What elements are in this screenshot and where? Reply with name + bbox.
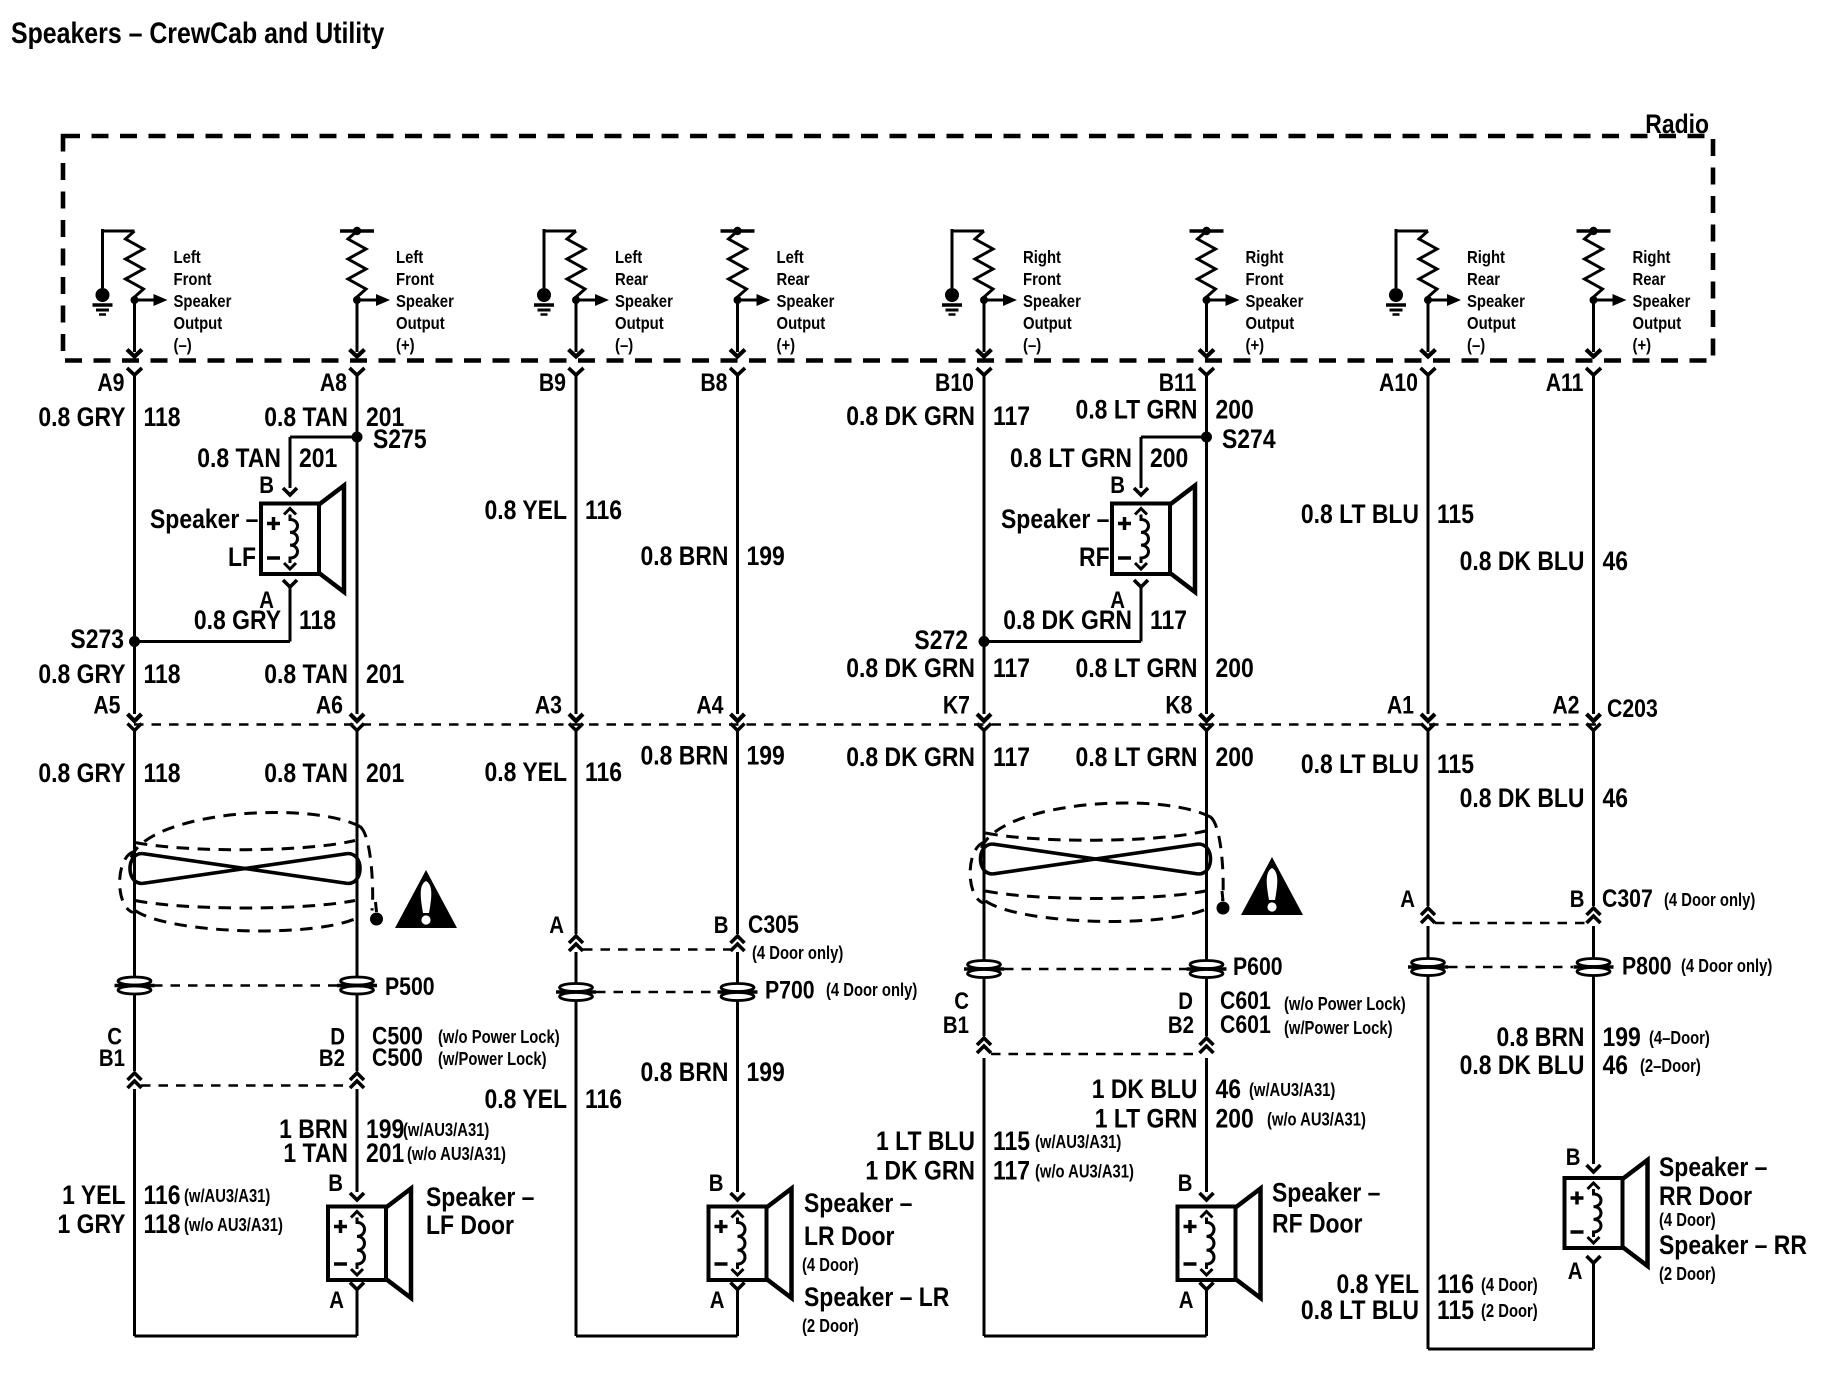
wire (column A9) bbox=[133, 1089, 136, 1336]
svg-text:(4 Door): (4 Door) bbox=[802, 1254, 859, 1275]
wire (bottom return, RR door) bbox=[1428, 1348, 1594, 1351]
svg-text:Speaker –: Speaker – bbox=[150, 504, 258, 534]
wire label 0.8 DK BLU 46 bbox=[1460, 546, 1629, 576]
svg-text:A2: A2 bbox=[1552, 691, 1579, 719]
svg-text:Left: Left bbox=[615, 248, 643, 267]
svg-text:115: 115 bbox=[1437, 1295, 1474, 1325]
svg-text:0.8 BRN: 0.8 BRN bbox=[641, 741, 729, 771]
wire label 0.8 YEL 116 bbox=[485, 757, 623, 787]
grommet P600 dashed link + label bbox=[1004, 968, 1187, 971]
svg-text:118: 118 bbox=[144, 402, 181, 432]
svg-text:(4 Door): (4 Door) bbox=[1659, 1209, 1716, 1230]
svg-text:Output: Output bbox=[396, 314, 445, 333]
svg-text:0.8 DK GRN: 0.8 DK GRN bbox=[1003, 605, 1132, 635]
svg-text:0.8 DK GRN: 0.8 DK GRN bbox=[846, 401, 975, 431]
svg-text:117: 117 bbox=[993, 653, 1030, 683]
svg-text:201: 201 bbox=[299, 443, 337, 473]
svg-text:A9: A9 bbox=[97, 368, 124, 396]
wire label 1 GRY 118 bbox=[57, 1209, 282, 1239]
svg-text:B: B bbox=[1566, 1143, 1581, 1170]
svg-text:C601: C601 bbox=[1220, 1010, 1271, 1038]
svg-text:B: B bbox=[1570, 885, 1585, 912]
radio resistor, Left Rear Speaker Output (-) bbox=[534, 229, 673, 375]
wire (bottom return, RF door) bbox=[984, 1335, 1207, 1338]
wire label 1 LT GRN 200 bbox=[1095, 1104, 1366, 1134]
svg-text:Output: Output bbox=[777, 314, 826, 333]
svg-text:Output: Output bbox=[1467, 314, 1516, 333]
speaker LR Door bbox=[709, 1189, 792, 1299]
svg-text:A8: A8 bbox=[320, 368, 347, 396]
svg-text:(4 Door only): (4 Door only) bbox=[1681, 955, 1772, 976]
svg-text:Front: Front bbox=[174, 270, 213, 289]
wire (LF speaker A to splice S273) bbox=[289, 587, 292, 642]
svg-text:LF Door: LF Door bbox=[426, 1210, 514, 1240]
RF speaker pin A arrow bbox=[1134, 580, 1148, 587]
wire label 0.8 TAN 201 bbox=[264, 402, 404, 432]
svg-text:Speaker –: Speaker – bbox=[804, 1188, 912, 1218]
svg-text:B: B bbox=[328, 1169, 343, 1196]
svg-text:B: B bbox=[709, 1169, 724, 1196]
svg-text:Speaker: Speaker bbox=[1467, 292, 1525, 311]
svg-text:A10: A10 bbox=[1379, 368, 1418, 396]
svg-text:Speaker –: Speaker – bbox=[1659, 1152, 1767, 1182]
svg-text:115: 115 bbox=[1437, 749, 1474, 779]
svg-text:B: B bbox=[1110, 471, 1125, 498]
svg-text:B11: B11 bbox=[1159, 368, 1197, 396]
connector arrow C307 pin A bbox=[1421, 908, 1435, 923]
svg-text:LF: LF bbox=[228, 542, 256, 572]
svg-text:0.8 YEL: 0.8 YEL bbox=[485, 1084, 567, 1114]
splice S273 bbox=[129, 636, 140, 647]
svg-text:S272: S272 bbox=[914, 625, 968, 655]
wire (column B8) bbox=[736, 952, 739, 1192]
wire label 0.8 YEL 116 bbox=[1337, 1269, 1538, 1299]
connector arrow C500 pin C/B1 bbox=[128, 1073, 142, 1088]
svg-text:A5: A5 bbox=[93, 691, 120, 719]
wire (column A9) bbox=[133, 375, 136, 714]
twisted-pair marker right (DK GRN/LT GRN) bbox=[970, 803, 1229, 921]
connector C203 pin arrow A10 bbox=[1421, 714, 1435, 731]
svg-text:B: B bbox=[714, 911, 729, 938]
speaker LF Door pin A arrow bbox=[350, 1283, 364, 1290]
svg-text:(w/Power Lock): (w/Power Lock) bbox=[1284, 1017, 1393, 1038]
radio resistor, Right Front Speaker Output (+) bbox=[1190, 227, 1304, 375]
connector arrow C601 pin C/B1 bbox=[977, 1038, 991, 1053]
svg-text:Output: Output bbox=[1023, 314, 1072, 333]
svg-text:P600: P600 bbox=[1233, 952, 1283, 980]
connector C203 pin arrow A8 bbox=[350, 714, 364, 731]
svg-text:B9: B9 bbox=[539, 368, 566, 396]
svg-text:117: 117 bbox=[993, 742, 1030, 772]
wire label 1 BRN 199 bbox=[279, 1114, 489, 1144]
wire (LF Door speaker pin A) bbox=[356, 1290, 359, 1337]
svg-text:RR Door: RR Door bbox=[1659, 1181, 1752, 1211]
svg-text:Output: Output bbox=[1246, 314, 1295, 333]
wire (bottom return, LF door) bbox=[135, 1335, 358, 1338]
svg-text:P500: P500 bbox=[385, 972, 435, 1000]
speaker LF bbox=[261, 486, 344, 593]
speaker RF Door pin A arrow bbox=[1200, 1283, 1214, 1290]
splice S272 bbox=[979, 636, 990, 647]
wire (column B8) bbox=[736, 375, 739, 714]
svg-text:117: 117 bbox=[1150, 605, 1187, 635]
svg-text:0.8 TAN: 0.8 TAN bbox=[264, 402, 348, 432]
svg-text:0.8 GRY: 0.8 GRY bbox=[38, 758, 125, 788]
wire label 1 TAN 201 bbox=[283, 1138, 506, 1168]
speaker RR Door pin A arrow bbox=[1587, 1256, 1601, 1263]
svg-text:0.8 TAN: 0.8 TAN bbox=[197, 443, 281, 473]
svg-text:Right: Right bbox=[1023, 248, 1062, 267]
speaker RF Door pin B arrow bbox=[1200, 1193, 1214, 1200]
svg-text:199: 199 bbox=[1603, 1022, 1641, 1052]
wire (LR Door speaker pin A) bbox=[736, 1290, 739, 1337]
connector C203 pin arrow B11 bbox=[1200, 714, 1214, 731]
svg-text:1 LT BLU: 1 LT BLU bbox=[876, 1126, 975, 1156]
grommet P700 right on wire bbox=[718, 984, 758, 1001]
svg-text:S273: S273 bbox=[70, 624, 124, 654]
svg-text:(w/o AU3/A31): (w/o AU3/A31) bbox=[184, 1214, 283, 1235]
svg-text:1 GRY: 1 GRY bbox=[57, 1209, 125, 1239]
wire (column A8) bbox=[356, 375, 359, 714]
svg-text:200: 200 bbox=[1216, 1104, 1254, 1134]
wire label 0.8 DK BLU 46 bbox=[1460, 783, 1629, 813]
svg-text:B1: B1 bbox=[99, 1044, 125, 1071]
svg-text:46: 46 bbox=[1603, 546, 1629, 576]
svg-text:A6: A6 bbox=[316, 691, 343, 719]
svg-text:0.8 LT GRN: 0.8 LT GRN bbox=[1076, 742, 1198, 772]
wire (column A10) bbox=[1427, 731, 1430, 906]
svg-text:0.8 LT BLU: 0.8 LT BLU bbox=[1301, 749, 1419, 779]
svg-text:A: A bbox=[1400, 885, 1415, 912]
connector C203 pin arrow B9 bbox=[569, 714, 583, 731]
svg-text:0.8 BRN: 0.8 BRN bbox=[641, 541, 729, 571]
wire (column B10) bbox=[983, 731, 986, 1036]
svg-text:(w/Power Lock): (w/Power Lock) bbox=[438, 1048, 547, 1069]
svg-text:0.8 DK BLU: 0.8 DK BLU bbox=[1460, 1050, 1585, 1080]
svg-text:Speaker: Speaker bbox=[396, 292, 454, 311]
grommet P800 right on wire bbox=[1574, 959, 1614, 976]
svg-text:199: 199 bbox=[747, 1057, 785, 1087]
svg-text:Speaker: Speaker bbox=[777, 292, 835, 311]
connector C203 pin arrow B10 bbox=[977, 714, 991, 731]
speaker LR Door pin B arrow bbox=[731, 1193, 745, 1200]
svg-text:Front: Front bbox=[1246, 270, 1285, 289]
svg-text:(w/AU3/A31): (w/AU3/A31) bbox=[184, 1185, 270, 1206]
svg-text:C203: C203 bbox=[1607, 694, 1658, 722]
wire label 0.8 GRY 118 bbox=[38, 659, 180, 689]
svg-text:1 LT GRN: 1 LT GRN bbox=[1095, 1104, 1198, 1134]
wire label 1 YEL 116 bbox=[62, 1180, 270, 1210]
svg-text:Speaker: Speaker bbox=[174, 292, 232, 311]
wire (RF Door speaker pin A) bbox=[1205, 1290, 1208, 1337]
svg-text:Left: Left bbox=[174, 248, 202, 267]
speaker LF Door bbox=[328, 1189, 411, 1299]
speaker RF Door bbox=[1178, 1189, 1261, 1299]
radio resistor, Left Front Speaker Output (-) bbox=[93, 229, 232, 375]
svg-text:0.8 GRY: 0.8 GRY bbox=[38, 402, 125, 432]
svg-text:118: 118 bbox=[299, 605, 336, 635]
svg-text:Speaker: Speaker bbox=[615, 292, 673, 311]
grommet P600 right on wire bbox=[1187, 961, 1227, 978]
wire (column B10) bbox=[983, 375, 986, 714]
svg-text:0.8 TAN: 0.8 TAN bbox=[264, 758, 348, 788]
svg-text:46: 46 bbox=[1216, 1074, 1242, 1104]
svg-text:A1: A1 bbox=[1387, 691, 1414, 719]
Radio dashed box bbox=[63, 136, 1713, 361]
wire (RF speaker A to splice S272) bbox=[1140, 587, 1143, 642]
svg-text:(–): (–) bbox=[1023, 336, 1041, 355]
svg-text:A4: A4 bbox=[696, 691, 723, 719]
wire label 0.8 BRN 199 bbox=[1497, 1022, 1710, 1052]
svg-text:A3: A3 bbox=[535, 691, 562, 719]
wire (column A10) bbox=[1427, 926, 1430, 1349]
wire label 0.8 TAN 201 bbox=[197, 443, 337, 473]
svg-text:A: A bbox=[549, 911, 564, 938]
radio resistor, Right Rear Speaker Output (-) bbox=[1386, 229, 1525, 375]
svg-text:Right: Right bbox=[1246, 248, 1285, 267]
wire (column A8) bbox=[356, 731, 359, 1071]
svg-text:116: 116 bbox=[585, 757, 622, 787]
LF speaker pin B arrow bbox=[283, 488, 297, 495]
svg-text:P700: P700 bbox=[765, 976, 815, 1004]
grommet P700 dashed link + label bbox=[596, 991, 718, 994]
speaker LF Door pin B arrow bbox=[350, 1193, 364, 1200]
svg-text:0.8 TAN: 0.8 TAN bbox=[264, 659, 348, 689]
splice S274 bbox=[1201, 432, 1212, 443]
svg-text:200: 200 bbox=[1216, 742, 1254, 772]
wire (column A11) bbox=[1592, 731, 1595, 906]
svg-text:Rear: Rear bbox=[777, 270, 811, 289]
svg-text:116: 116 bbox=[585, 1084, 622, 1114]
radio resistor, Right Front Speaker Output (-) bbox=[942, 229, 1081, 375]
speaker LR Door pin A arrow bbox=[731, 1283, 745, 1290]
wire (column B11) bbox=[1205, 375, 1208, 714]
svg-text:(2–Door): (2–Door) bbox=[1640, 1055, 1701, 1076]
svg-text:(–): (–) bbox=[1467, 336, 1485, 355]
wire label 0.8 DK GRN 117 bbox=[846, 742, 1030, 772]
wire label 0.8 BRN 199 bbox=[641, 541, 785, 571]
svg-text:200: 200 bbox=[1150, 443, 1188, 473]
svg-text:201: 201 bbox=[366, 659, 404, 689]
RF speaker pin B arrow bbox=[1134, 488, 1148, 495]
svg-text:(2 Door): (2 Door) bbox=[802, 1315, 859, 1336]
svg-text:(4 Door only): (4 Door only) bbox=[826, 979, 917, 1000]
radio resistor, Left Front Speaker Output (+) bbox=[340, 227, 454, 375]
svg-text:A: A bbox=[329, 1286, 344, 1313]
svg-text:(w/o Power Lock): (w/o Power Lock) bbox=[1284, 993, 1406, 1014]
grommet P700 left on wire bbox=[556, 984, 596, 1001]
svg-text:A: A bbox=[1568, 1257, 1583, 1284]
svg-text:(4–Door): (4–Door) bbox=[1649, 1027, 1710, 1048]
svg-text:117: 117 bbox=[993, 401, 1030, 431]
wire label 0.8 DK BLU 46 bbox=[1460, 1050, 1701, 1080]
svg-text:0.8 LT BLU: 0.8 LT BLU bbox=[1301, 1295, 1419, 1325]
svg-text:(w/AU3/A31): (w/AU3/A31) bbox=[1035, 1131, 1121, 1152]
grommet P800 left on wire bbox=[1408, 959, 1448, 976]
wire label 0.8 GRY 118 bbox=[38, 758, 180, 788]
wire label 0.8 YEL 116 bbox=[485, 1084, 623, 1114]
svg-text:A11: A11 bbox=[1546, 368, 1584, 396]
connector C307 dashed line bbox=[1435, 922, 1586, 925]
svg-text:S274: S274 bbox=[1222, 424, 1276, 454]
speaker RR Door pin B arrow bbox=[1587, 1165, 1601, 1172]
svg-text:(w/AU3/A31): (w/AU3/A31) bbox=[1249, 1079, 1335, 1100]
wire label 0.8 LT GRN 200 bbox=[1076, 653, 1254, 683]
svg-text:Right: Right bbox=[1467, 248, 1506, 267]
svg-text:(2 Door): (2 Door) bbox=[1481, 1300, 1538, 1321]
wire label 0.8 GRY 118 bbox=[194, 605, 336, 635]
svg-text:0.8 DK GRN: 0.8 DK GRN bbox=[846, 653, 975, 683]
svg-text:P800: P800 bbox=[1622, 952, 1672, 980]
wire (column B11) bbox=[1205, 731, 1208, 1036]
svg-text:(–): (–) bbox=[615, 336, 633, 355]
wire label 0.8 LT BLU 115 bbox=[1301, 1295, 1538, 1325]
svg-text:(+): (+) bbox=[1633, 336, 1652, 355]
svg-text:B: B bbox=[259, 471, 274, 498]
svg-text:1 DK GRN: 1 DK GRN bbox=[865, 1156, 975, 1186]
warning triangle left bbox=[395, 870, 457, 928]
svg-text:Speaker –: Speaker – bbox=[426, 1182, 534, 1212]
svg-text:201: 201 bbox=[366, 402, 404, 432]
svg-text:0.8 BRN: 0.8 BRN bbox=[641, 1057, 729, 1087]
wire (bottom return, LR door) bbox=[576, 1335, 738, 1338]
svg-text:(+): (+) bbox=[1246, 336, 1265, 355]
svg-text:1 TAN: 1 TAN bbox=[283, 1138, 348, 1168]
wire label 0.8 TAN 201 bbox=[264, 659, 404, 689]
LF speaker pin A arrow bbox=[283, 580, 297, 587]
svg-text:Output: Output bbox=[615, 314, 664, 333]
svg-text:1 YEL: 1 YEL bbox=[62, 1180, 125, 1210]
wire (S274 branch to RF speaker B) bbox=[1141, 436, 1207, 439]
svg-text:Speaker: Speaker bbox=[1246, 292, 1304, 311]
warning triangle right bbox=[1241, 857, 1303, 915]
svg-text:200: 200 bbox=[1216, 395, 1254, 425]
svg-text:K8: K8 bbox=[1165, 691, 1192, 719]
svg-text:RF: RF bbox=[1079, 542, 1110, 572]
svg-text:115: 115 bbox=[1437, 499, 1474, 529]
svg-text:RF Door: RF Door bbox=[1272, 1209, 1363, 1239]
svg-text:(4 Door only): (4 Door only) bbox=[752, 942, 843, 963]
svg-text:(4 Door only): (4 Door only) bbox=[1664, 889, 1755, 910]
svg-text:199: 199 bbox=[747, 541, 785, 571]
svg-text:Speaker: Speaker bbox=[1023, 292, 1081, 311]
wire label 0.8 DK GRN 117 bbox=[846, 653, 1030, 683]
connector C305 dashed line bbox=[583, 948, 731, 951]
svg-text:(2 Door): (2 Door) bbox=[1659, 1263, 1716, 1284]
connector arrow C601 pin D/B2 bbox=[1200, 1038, 1214, 1053]
wire label 0.8 LT GRN 200 bbox=[1076, 742, 1254, 772]
svg-text:Output: Output bbox=[174, 314, 223, 333]
svg-text:(+): (+) bbox=[777, 336, 796, 355]
connector C500 dashed line bbox=[141, 1084, 350, 1087]
svg-text:Front: Front bbox=[1023, 270, 1062, 289]
wire label 0.8 LT GRN 200 bbox=[1076, 395, 1254, 425]
svg-text:0.8 GRY: 0.8 GRY bbox=[38, 659, 125, 689]
radio resistor, Left Rear Speaker Output (+) bbox=[721, 227, 835, 375]
svg-text:(w/o Power Lock): (w/o Power Lock) bbox=[438, 1026, 560, 1047]
svg-text:0.8 YEL: 0.8 YEL bbox=[485, 495, 567, 525]
svg-text:(w/o AU3/A31): (w/o AU3/A31) bbox=[407, 1143, 506, 1164]
svg-text:0.8 DK BLU: 0.8 DK BLU bbox=[1460, 783, 1585, 813]
connector C601 dashed line bbox=[991, 1053, 1200, 1056]
twisted-pair marker left (GRY/TAN) bbox=[120, 812, 383, 930]
svg-text:(w/o AU3/A31): (w/o AU3/A31) bbox=[1267, 1109, 1366, 1130]
wire label 0.8 LT BLU 115 bbox=[1301, 749, 1474, 779]
svg-text:C307: C307 bbox=[1602, 884, 1653, 912]
svg-text:D: D bbox=[1178, 987, 1193, 1014]
wire label 1 LT BLU 115 bbox=[876, 1126, 1121, 1156]
svg-text:Rear: Rear bbox=[1467, 270, 1501, 289]
svg-text:0.8 LT GRN: 0.8 LT GRN bbox=[1076, 653, 1198, 683]
speaker RR Door bbox=[1565, 1160, 1648, 1266]
svg-text:117: 117 bbox=[993, 1156, 1030, 1186]
svg-text:115: 115 bbox=[993, 1126, 1030, 1156]
wire label 0.8 GRY 118 bbox=[38, 402, 180, 432]
svg-text:Speaker: Speaker bbox=[1633, 292, 1691, 311]
svg-text:(4 Door): (4 Door) bbox=[1481, 1274, 1538, 1295]
svg-text:C305: C305 bbox=[748, 910, 799, 938]
svg-text:Rear: Rear bbox=[1633, 270, 1667, 289]
grommet P500 dashed link + label bbox=[153, 984, 337, 987]
svg-text:Speakers – CrewCab and Utility: Speakers – CrewCab and Utility bbox=[11, 16, 385, 50]
svg-text:118: 118 bbox=[144, 659, 181, 689]
speaker RF bbox=[1112, 486, 1195, 593]
connector C203 dashed line bbox=[134, 723, 1597, 726]
svg-text:0.8 BRN: 0.8 BRN bbox=[1497, 1022, 1585, 1052]
svg-text:(–): (–) bbox=[174, 336, 192, 355]
svg-text:B: B bbox=[1178, 1169, 1193, 1196]
svg-text:Front: Front bbox=[396, 270, 435, 289]
svg-text:C: C bbox=[954, 987, 969, 1014]
svg-text:B8: B8 bbox=[700, 368, 727, 396]
wire label 0.8 BRN 199 bbox=[641, 741, 785, 771]
svg-text:Left: Left bbox=[777, 248, 805, 267]
svg-text:K7: K7 bbox=[943, 691, 970, 719]
connector arrow C307 pin B bbox=[1587, 908, 1601, 923]
connector C203 pin arrow A11 bbox=[1587, 714, 1601, 731]
svg-text:1 DK BLU: 1 DK BLU bbox=[1092, 1074, 1198, 1104]
svg-text:LR Door: LR Door bbox=[804, 1221, 895, 1251]
svg-text:Output: Output bbox=[1633, 314, 1682, 333]
svg-text:B10: B10 bbox=[935, 368, 974, 396]
svg-text:A: A bbox=[1179, 1286, 1194, 1313]
wire (column B9) bbox=[575, 375, 578, 714]
svg-text:201: 201 bbox=[366, 1138, 404, 1168]
wire (column A11) bbox=[1592, 375, 1595, 714]
svg-text:Left: Left bbox=[396, 248, 424, 267]
svg-text:Speaker – LR: Speaker – LR bbox=[804, 1282, 949, 1312]
wire label 0.8 DK GRN 117 bbox=[846, 401, 1030, 431]
wire (RR Door speaker pin A) bbox=[1592, 1263, 1595, 1349]
svg-text:0.8 LT GRN: 0.8 LT GRN bbox=[1010, 443, 1132, 473]
svg-text:Right: Right bbox=[1633, 248, 1672, 267]
svg-text:(w/o AU3/A31): (w/o AU3/A31) bbox=[1035, 1161, 1134, 1182]
grommet P800 dashed link + label bbox=[1448, 966, 1573, 969]
connector arrow C500 pin D/B2 bbox=[350, 1073, 364, 1088]
wire label 0.8 BRN 199 bbox=[641, 1057, 785, 1087]
svg-text:201: 201 bbox=[366, 758, 404, 788]
wire (column A8) bbox=[356, 1089, 359, 1192]
wire label 0.8 DK GRN 117 bbox=[1003, 605, 1187, 635]
svg-text:Speaker – RR: Speaker – RR bbox=[1659, 1230, 1807, 1260]
wire label 0.8 LT BLU 115 bbox=[1301, 499, 1474, 529]
splice S275 bbox=[352, 432, 363, 443]
svg-text:Speaker –: Speaker – bbox=[1001, 504, 1109, 534]
wire label 0.8 TAN 201 bbox=[264, 758, 404, 788]
wire (column A9) bbox=[133, 731, 136, 1071]
wire (column B9) bbox=[575, 952, 578, 1336]
svg-text:A: A bbox=[710, 1286, 725, 1313]
